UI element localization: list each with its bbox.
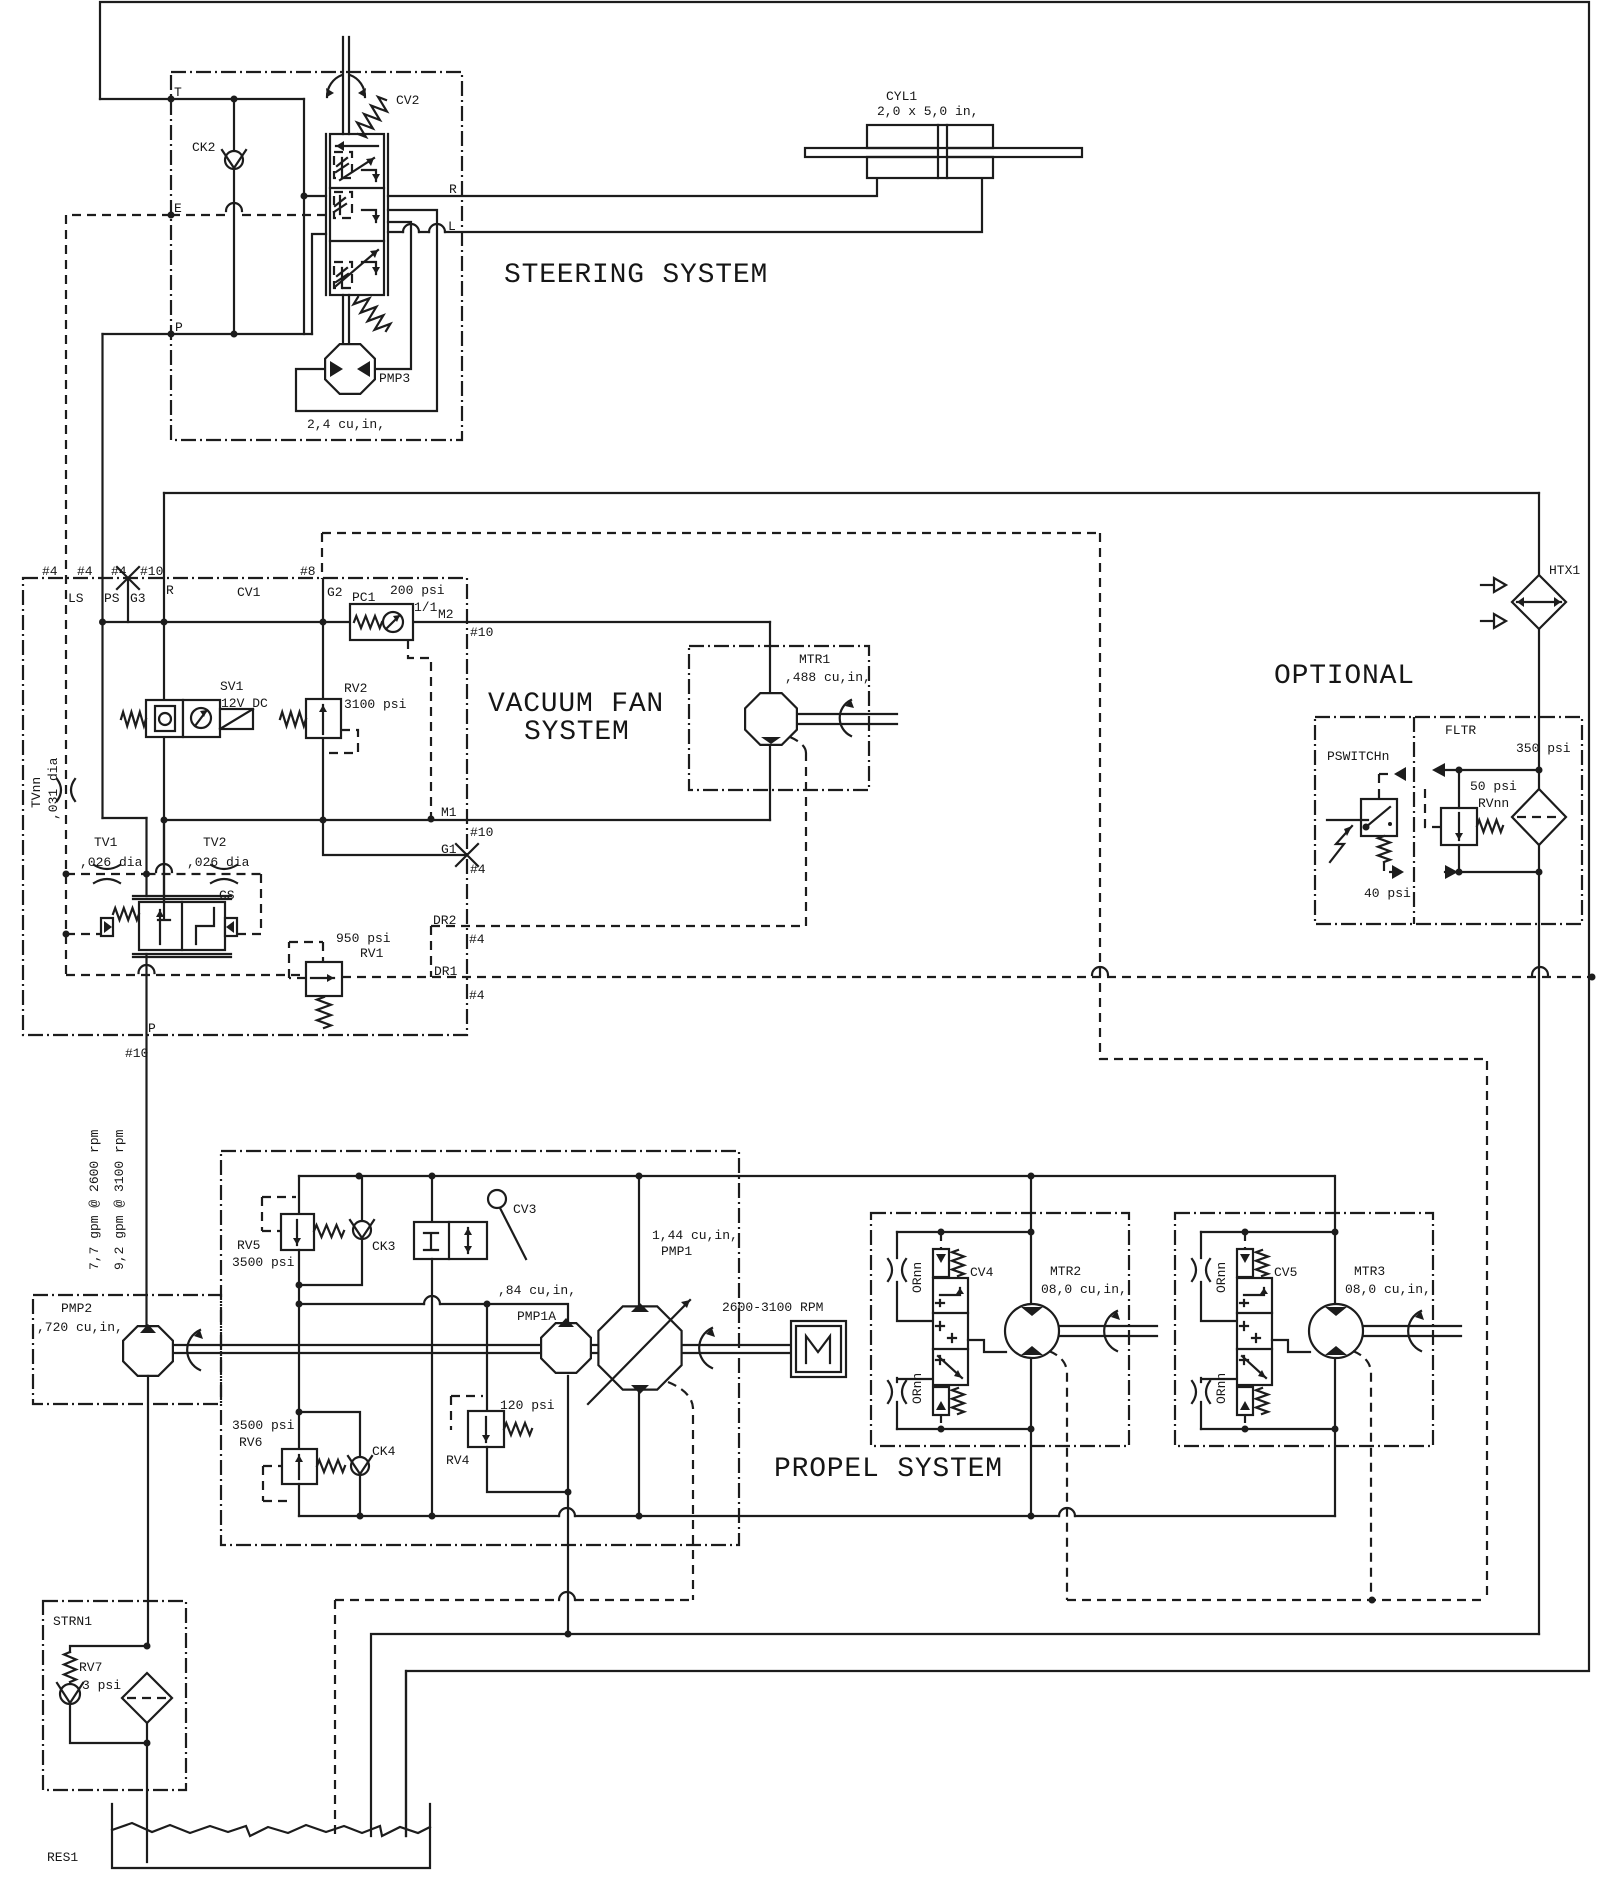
svg-text:TVnn: TVnn xyxy=(29,777,44,808)
svg-text:CV1: CV1 xyxy=(237,585,261,600)
svg-text:G2: G2 xyxy=(327,585,343,600)
shaft CV2 to PMP3 xyxy=(343,295,349,345)
svg-text:08,0 cu,in,: 08,0 cu,in, xyxy=(1041,1282,1127,1297)
wire valve stub to pump loop right xyxy=(376,222,411,369)
wire MTR2 drain collect dashed xyxy=(1067,1599,1487,1601)
wire PMP1A bottom drain xyxy=(567,1376,569,1634)
svg-text:FLTR: FLTR xyxy=(1445,723,1476,738)
svg-text:350 psi: 350 psi xyxy=(1516,741,1571,756)
svg-text:CV5: CV5 xyxy=(1274,1265,1297,1280)
svg-text:3500 psi: 3500 psi xyxy=(232,1418,295,1433)
compensator PC1 xyxy=(350,604,413,640)
svg-text:G1: G1 xyxy=(441,842,457,857)
svg-text:ORnn: ORnn xyxy=(1214,1262,1229,1293)
svg-text:PC1: PC1 xyxy=(352,590,376,605)
wire propel return y1516 xyxy=(299,1515,1335,1517)
svg-text:PROPEL SYSTEM: PROPEL SYSTEM xyxy=(774,1454,1003,1485)
node LS-CS junction xyxy=(63,931,70,938)
rotation arrow MTR2 xyxy=(1104,1311,1117,1351)
pilot cap CS left xyxy=(101,918,113,936)
svg-text:CV4: CV4 xyxy=(970,1265,994,1280)
svg-text:CS: CS xyxy=(219,888,235,903)
pump PMP1 variable xyxy=(638,1176,640,1516)
relief valve RVnn filter bypass xyxy=(1445,769,1539,771)
svg-text:OPTIONAL: OPTIONAL xyxy=(1274,661,1415,692)
svg-text:950 psi: 950 psi xyxy=(336,931,391,946)
valve CV3 xyxy=(431,1176,433,1222)
svg-text:G3: G3 xyxy=(130,591,146,606)
motor circuit MTR3 xyxy=(1192,1176,1461,1600)
heat exchanger HTX1 xyxy=(1512,575,1566,629)
check valve CK2 xyxy=(233,99,235,334)
svg-text:CV3: CV3 xyxy=(513,1202,536,1217)
pressure switch PSWITCHn xyxy=(1361,799,1397,836)
wire .84 supply line xyxy=(299,1304,568,1321)
svg-text:,488 cu,in,: ,488 cu,in, xyxy=(785,670,871,685)
svg-text:PMP2: PMP2 xyxy=(61,1301,92,1316)
svg-text:M1: M1 xyxy=(441,805,457,820)
pilot cap CV5 top xyxy=(1237,1249,1253,1277)
divider optional box xyxy=(1413,717,1415,924)
svg-text:50 psi: 50 psi xyxy=(1470,779,1517,794)
drain dashed MTR2 xyxy=(1049,1351,1067,1600)
wire to HTX1 xyxy=(1538,493,1540,575)
pump PMP1 xyxy=(598,1306,681,1389)
svg-text:3 psi: 3 psi xyxy=(82,1678,121,1693)
wire return drop to tank xyxy=(405,1671,407,1836)
pump PMP1A xyxy=(541,1323,591,1373)
node LS-TV junction xyxy=(63,871,70,878)
svg-text:T: T xyxy=(174,85,182,100)
svg-text:PMP3: PMP3 xyxy=(379,371,410,386)
svg-text:SV1: SV1 xyxy=(220,679,244,694)
svg-text:#4: #4 xyxy=(470,862,486,877)
svg-text:MTR3: MTR3 xyxy=(1354,1264,1385,1279)
motor circuit MTR2 xyxy=(888,1176,1157,1600)
enclosure pump PMP2 xyxy=(33,1295,221,1404)
svg-text:PSWITCHn: PSWITCHn xyxy=(1327,749,1389,764)
svg-text:TV2: TV2 xyxy=(203,835,226,850)
svg-text:PMP1A: PMP1A xyxy=(517,1309,556,1324)
svg-text:RV4: RV4 xyxy=(446,1453,470,1468)
wire MTR1 bottom xyxy=(769,745,771,820)
plug X G1 xyxy=(456,844,478,866)
node M1-RV2 junction xyxy=(320,817,327,824)
svg-text:TV1: TV1 xyxy=(94,835,118,850)
svg-text:1,44 cu,in,: 1,44 cu,in, xyxy=(652,1228,738,1243)
svg-text:RV5: RV5 xyxy=(237,1238,260,1253)
valve CV4 xyxy=(933,1278,968,1385)
svg-text:200 psi: 200 psi xyxy=(390,583,445,598)
electric zigzag arrow xyxy=(1330,826,1352,862)
svg-text:ORnn: ORnn xyxy=(910,1262,925,1293)
valve CV5 xyxy=(1237,1278,1272,1385)
air arrows HTX1 xyxy=(1481,584,1494,586)
pump PMP3 xyxy=(325,344,375,394)
svg-text:PMP1: PMP1 xyxy=(661,1244,692,1259)
svg-text:MTR2: MTR2 xyxy=(1050,1264,1081,1279)
svg-text:SYSTEM: SYSTEM xyxy=(524,717,630,748)
enclosure steering system xyxy=(171,72,462,440)
svg-text:HTX1: HTX1 xyxy=(1549,563,1580,578)
wire CS left pilot dashed xyxy=(66,933,101,935)
svg-text:DR2: DR2 xyxy=(433,913,456,928)
svg-text:08,0 cu,in,: 08,0 cu,in, xyxy=(1345,1282,1431,1297)
shaft MTR1 xyxy=(799,714,897,724)
pilot cap CS right xyxy=(225,918,237,936)
svg-text:P: P xyxy=(148,1021,156,1036)
svg-text:9,2 gpm @ 3100 rpm: 9,2 gpm @ 3100 rpm xyxy=(112,1129,127,1270)
steering column shaft xyxy=(343,37,349,134)
motor MTR1 xyxy=(745,693,797,745)
svg-text:2,4 cu,in,: 2,4 cu,in, xyxy=(307,417,385,432)
reservoir fluid surface xyxy=(112,1823,430,1836)
wire DR1 dashed xyxy=(66,974,306,976)
wire G2 gauge dashed xyxy=(322,533,1100,579)
svg-text:#4: #4 xyxy=(469,988,485,1003)
motor MTR3 xyxy=(1309,1304,1363,1358)
wire filter down to reservoir line xyxy=(1538,845,1540,1634)
svg-text:#4: #4 xyxy=(111,564,127,579)
svg-text:3100 psi: 3100 psi xyxy=(344,697,407,712)
svg-text:MTR1: MTR1 xyxy=(799,652,830,667)
svg-text:,031 dia: ,031 dia xyxy=(46,757,61,820)
pilot dash RV2 xyxy=(324,730,358,753)
node M1-R junction xyxy=(161,817,168,824)
wire L work line xyxy=(388,178,982,232)
pilot dash RV1 xyxy=(289,942,323,978)
svg-text:RV2: RV2 xyxy=(344,681,367,696)
wire M2 to MTR1 xyxy=(769,622,771,693)
rotation arrow PMP1 xyxy=(699,1328,712,1368)
svg-text:#8: #8 xyxy=(300,564,316,579)
spring CV2 top xyxy=(357,97,387,137)
rotation arrow MTR1 xyxy=(840,700,851,736)
svg-text:,026 dia: ,026 dia xyxy=(80,855,143,870)
wire P line to PMP2 xyxy=(145,954,147,1326)
strainer STRN1 xyxy=(144,1643,151,1650)
svg-text:#10: #10 xyxy=(470,825,493,840)
pilot cap CV4 top xyxy=(933,1249,949,1277)
wire M2 line xyxy=(413,621,770,623)
wire drain to reservoir dashed xyxy=(335,1599,693,1601)
wire LS dashed vertical xyxy=(66,215,171,975)
svg-text:40 psi: 40 psi xyxy=(1364,886,1411,901)
wire DR2 dashed xyxy=(431,753,806,926)
rotation arrow PMP2 xyxy=(187,1330,200,1370)
solenoid valve SV1 xyxy=(146,700,183,737)
svg-text:,720 cu,in,: ,720 cu,in, xyxy=(37,1320,123,1335)
node R junction xyxy=(161,619,168,626)
wire R vertical CV1 xyxy=(163,493,165,920)
svg-text:RV1: RV1 xyxy=(360,946,384,961)
check valve CK3 xyxy=(361,1176,363,1222)
wire R work line xyxy=(388,178,877,196)
enclosure motor MTR2 xyxy=(871,1213,1129,1446)
svg-text:#4: #4 xyxy=(42,564,58,579)
wire TV pilot dashed xyxy=(66,873,147,875)
node G2 junction xyxy=(320,619,327,626)
enclosure motor MTR3 xyxy=(1175,1213,1433,1446)
orifice TVnn xyxy=(57,779,75,801)
svg-text:CV2: CV2 xyxy=(396,93,419,108)
wire T line xyxy=(100,98,304,100)
plug X G3 xyxy=(117,567,139,589)
enclosure propel pump group xyxy=(221,1151,739,1545)
cylinder CYL1 xyxy=(867,125,993,178)
wire RV2 drain to G1 xyxy=(323,738,467,855)
svg-text:3500 psi: 3500 psi xyxy=(232,1255,295,1270)
enclosure valve CV1 xyxy=(23,578,467,1035)
steering rotation arrows xyxy=(327,75,342,97)
spring CS xyxy=(113,908,139,920)
svg-text:P: P xyxy=(175,320,183,335)
orifice TV2 xyxy=(211,865,237,883)
valve CS flow control xyxy=(133,820,231,957)
svg-text:VACUUM FAN: VACUUM FAN xyxy=(488,689,664,720)
drain dashed PMP1 xyxy=(668,1382,693,1600)
svg-text:L: L xyxy=(448,219,456,234)
reservoir RES1 xyxy=(112,1804,430,1868)
svg-text:#4: #4 xyxy=(77,564,93,579)
wire propel manifold y1176 xyxy=(299,1175,1334,1177)
svg-text:ORnn: ORnn xyxy=(1214,1373,1229,1404)
svg-text:M2: M2 xyxy=(438,607,454,622)
valve CV2 steering control xyxy=(326,134,388,295)
spring CV2 bottom xyxy=(354,297,391,331)
svg-text:12V DC: 12V DC xyxy=(221,696,268,711)
node M1 gauge junction xyxy=(428,816,435,823)
solenoid coil SV1 xyxy=(220,709,253,729)
wire vacuum fan return top xyxy=(164,492,1539,494)
svg-text:#10: #10 xyxy=(470,625,493,640)
relief valve RV5 xyxy=(298,1176,300,1214)
svg-text:120 psi: 120 psi xyxy=(500,1398,555,1413)
svg-text:CK2: CK2 xyxy=(192,140,215,155)
relief valve RV4 xyxy=(486,1304,488,1411)
svg-text:#4: #4 xyxy=(469,932,485,947)
svg-text:LS: LS xyxy=(68,591,84,606)
svg-text:CYL1: CYL1 xyxy=(886,89,917,104)
svg-text:PS: PS xyxy=(104,591,120,606)
relief valve RV6 xyxy=(298,1412,300,1449)
svg-text:2600-3100 RPM: 2600-3100 RPM xyxy=(722,1300,823,1315)
motor M electric xyxy=(791,1321,846,1377)
shaft MTR3 xyxy=(1363,1326,1461,1336)
node PS-TV junction xyxy=(143,871,150,878)
node PS junction xyxy=(99,619,106,626)
svg-text:RES1: RES1 xyxy=(47,1850,78,1865)
svg-text:#10: #10 xyxy=(125,1046,148,1061)
wire P line steering xyxy=(103,333,313,335)
wire CV5 to motor xyxy=(1272,1340,1310,1352)
enclosure optional filter block xyxy=(1315,717,1582,924)
cylinder rod xyxy=(805,148,1082,157)
wire G2 vertical xyxy=(322,579,324,699)
motor MTR2 xyxy=(1005,1304,1059,1358)
svg-text:CK3: CK3 xyxy=(372,1239,395,1254)
cylinder piston xyxy=(938,125,947,178)
pilot cap CV4 bottom xyxy=(933,1387,949,1415)
svg-text:E: E xyxy=(174,201,182,216)
drain dashed MTR3 xyxy=(1353,1351,1371,1600)
orifice TV1 xyxy=(94,865,120,883)
svg-text:RV6: RV6 xyxy=(239,1435,262,1450)
wire M1 line xyxy=(164,819,770,821)
wire CV4 to motor xyxy=(968,1340,1006,1352)
wire reservoir line y1634 xyxy=(371,1634,1539,1836)
wire M2 gauge dashed xyxy=(408,640,431,819)
shaft MTR2 xyxy=(1059,1326,1157,1336)
svg-text:DR1: DR1 xyxy=(434,964,458,979)
spring SV1 xyxy=(121,712,146,726)
svg-text:7,7 gpm @ 2600 rpm: 7,7 gpm @ 2600 rpm xyxy=(87,1129,102,1270)
wire valve stub to pump loop left xyxy=(296,210,437,411)
svg-text:R: R xyxy=(449,182,457,197)
relief valve RV7 xyxy=(70,1646,147,1652)
pilot cap CV5 bottom xyxy=(1237,1387,1253,1415)
variable displacement arrow PMP1 xyxy=(588,1300,690,1404)
junction dots steering xyxy=(168,96,175,103)
svg-text:2,0 x 5,0 in,: 2,0 x 5,0 in, xyxy=(877,104,978,119)
svg-text:STRN1: STRN1 xyxy=(53,1614,92,1629)
wire pressure line y622 xyxy=(103,621,351,623)
svg-text:#10: #10 xyxy=(140,564,163,579)
svg-text:STEERING SYSTEM: STEERING SYSTEM xyxy=(504,260,768,291)
svg-text:RVnn: RVnn xyxy=(1478,796,1509,811)
enclosure motor MTR1 xyxy=(689,646,869,790)
svg-text:CK4: CK4 xyxy=(372,1444,396,1459)
node DR1 to return xyxy=(1589,974,1596,981)
wire G3 stub xyxy=(127,579,129,622)
enclosure strainer STRN1 xyxy=(43,1601,186,1790)
pump PMP2 xyxy=(123,1326,173,1376)
check valve CK4 xyxy=(299,1412,360,1458)
shaft PMP2-PMP1-M xyxy=(173,1345,791,1353)
svg-text:R: R xyxy=(166,583,174,598)
relief valve RV1 xyxy=(306,962,342,996)
dashed E pilot line xyxy=(171,214,326,216)
wire T-P vertical xyxy=(303,99,305,334)
svg-text:,026 dia: ,026 dia xyxy=(187,855,250,870)
svg-text:ORnn: ORnn xyxy=(910,1373,925,1404)
svg-text:RV7: RV7 xyxy=(79,1660,102,1675)
rotation arrow MTR3 xyxy=(1408,1311,1421,1351)
svg-text:,84 cu,in,: ,84 cu,in, xyxy=(498,1283,576,1298)
filter FLTR xyxy=(1512,789,1566,845)
relief valve RV2 xyxy=(306,699,341,738)
wire valve left port to T/P vertical xyxy=(304,195,326,197)
svg-text:1/1: 1/1 xyxy=(414,600,438,615)
wire PS supply vertical xyxy=(101,334,103,818)
wire HTX1 to filter xyxy=(1538,629,1540,789)
wire PS to CS valve xyxy=(145,818,147,896)
wire PS jog xyxy=(103,817,147,819)
